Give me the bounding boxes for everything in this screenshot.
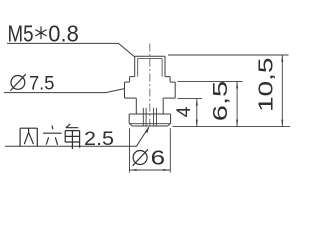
- flange left: [124, 82, 126, 98]
- cup right side: [170, 114, 172, 123]
- ext line 6,5 top: [178, 80, 243, 82]
- ext line bottom shared: [173, 126, 291, 128]
- text hex socket 2.5 (CJK drawn): [20, 124, 80, 149]
- collar left: [129, 77, 131, 83]
- stud top line: [135, 55, 165, 57]
- flange bottom left: [125, 97, 137, 99]
- arrow 10,5 bottom: [281, 120, 283, 127]
- leader M5: [7, 43, 135, 57]
- cup bottom right fillet: [168, 123, 171, 126]
- ext line 4 top: [178, 98, 203, 100]
- stud outer left: [134, 56, 136, 76]
- flange right: [174, 82, 176, 98]
- flange bottom right: [163, 97, 175, 99]
- flange top right: [170, 81, 175, 83]
- dim line 6,5: [236, 81, 238, 126]
- arrow 4 top: [196, 99, 198, 106]
- arrow dia6 left: [130, 169, 137, 171]
- char nei: [20, 128, 37, 146]
- neck right: [162, 98, 164, 114]
- flange top left: [125, 81, 130, 83]
- collar right: [169, 77, 171, 83]
- svg-text:6,5: 6,5: [210, 81, 232, 122]
- neck left: [135, 98, 137, 114]
- svg-text:4: 4: [173, 106, 195, 117]
- arrow hex leader: [146, 126, 150, 133]
- leader hex socket: [5, 127, 149, 146]
- star symbol: [35, 26, 46, 39]
- svg-text:10,5: 10,5: [255, 58, 278, 113]
- arrow 6,5 bottom: [236, 120, 238, 127]
- svg-text:0.8: 0.8: [48, 21, 79, 47]
- cup bottom left fillet: [129, 123, 132, 126]
- hex socket lines: [142, 108, 144, 126]
- arrow 10,5 top: [281, 55, 283, 62]
- ext line dia6 right: [169, 128, 171, 172]
- cup left side: [128, 114, 130, 123]
- ext line 10,5 top: [168, 54, 289, 56]
- arrow 6,5 top: [236, 81, 238, 88]
- svg-text:7.5: 7.5: [29, 72, 55, 94]
- cup fillet tangent line: [129, 123, 170, 125]
- cup bottom line: [132, 125, 167, 127]
- ext line dia6 left: [129, 128, 131, 172]
- svg-text:6: 6: [151, 147, 165, 169]
- char jiao: [65, 124, 79, 149]
- thread minor right: [161, 58, 163, 76]
- svg-text:M5: M5: [8, 21, 34, 47]
- svg-text:2.5: 2.5: [84, 128, 114, 150]
- cup top line: [129, 113, 170, 115]
- dim line dia6: [130, 169, 171, 171]
- arrow dia6 right: [163, 169, 170, 171]
- centerline: [149, 44, 151, 130]
- text dia7.5: [10, 72, 54, 94]
- dim line 4: [196, 99, 198, 127]
- collar top left: [130, 76, 135, 78]
- thread minor left: [137, 58, 139, 76]
- text M5*0.8: [8, 21, 79, 47]
- arrow 4 bottom: [196, 120, 198, 127]
- collar top right: [165, 76, 170, 78]
- stud outer right: [164, 56, 166, 76]
- leader dia7.5: [4, 89, 124, 93]
- char liu: [43, 126, 62, 145]
- thread chamfer line: [138, 57, 162, 59]
- text dia6: [133, 147, 165, 169]
- dim line 10,5: [281, 55, 283, 127]
- dia symbol: [10, 74, 25, 90]
